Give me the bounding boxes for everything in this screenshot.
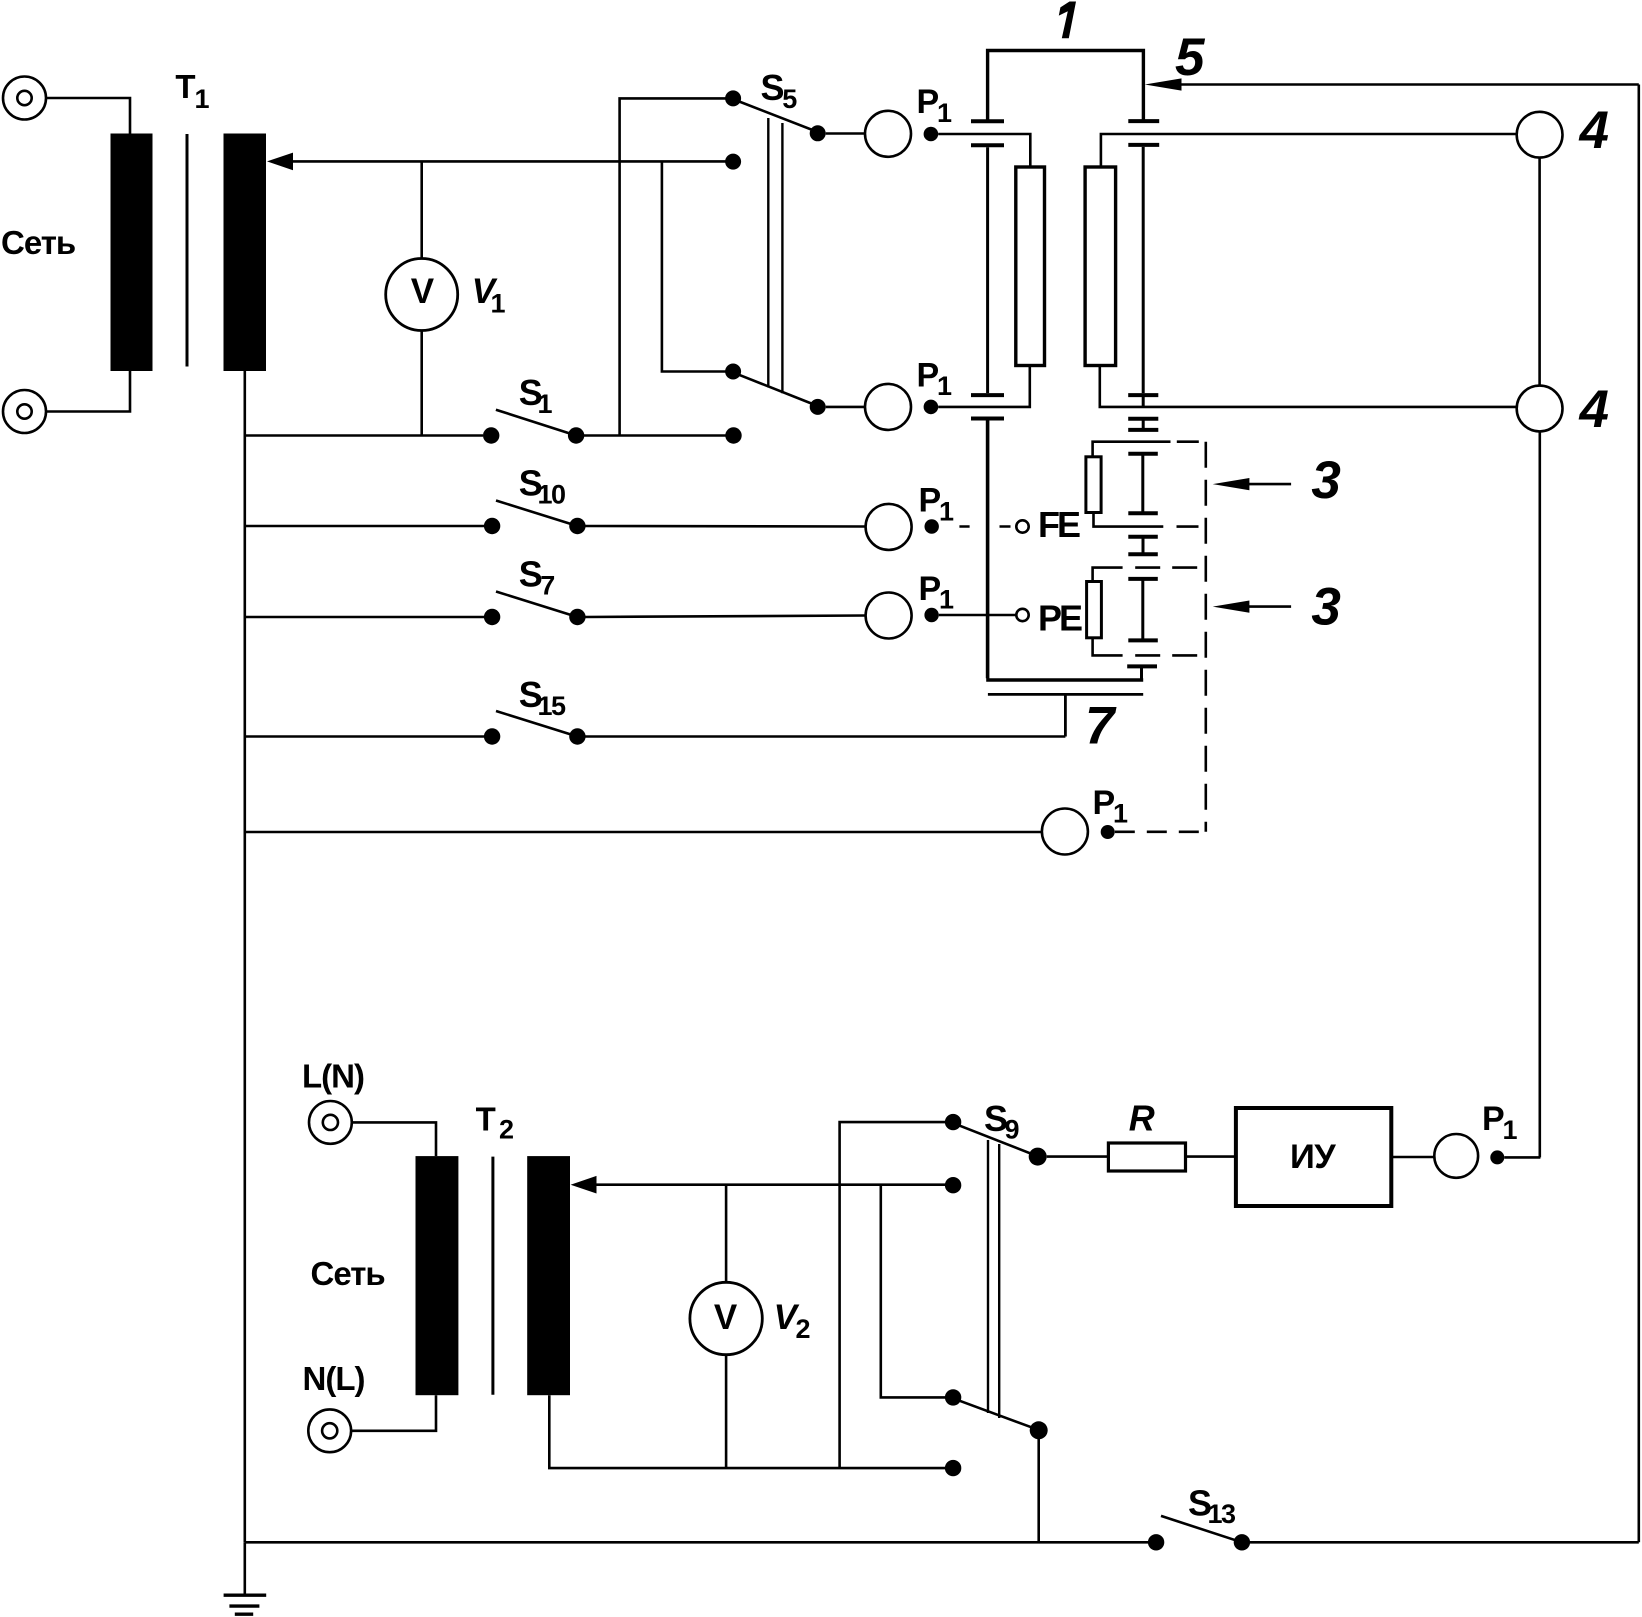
label V1 <box>472 272 506 318</box>
wire (S9 lower pole down to rail) <box>1037 1439 1040 1542</box>
capacitor (right column top pair) <box>1128 121 1159 145</box>
probe P1 (row 4, PE) <box>866 593 939 639</box>
wire (arrow 3 lower) <box>1213 601 1291 613</box>
wire (regulator arrow into T1) <box>267 153 733 171</box>
wire (row C dashed end) <box>1135 566 1206 569</box>
terminal (mains bottom) <box>3 390 46 433</box>
wire (row 2 left, to resistor) <box>938 366 1030 407</box>
ground <box>224 1542 267 1614</box>
wire (stem) <box>1142 538 1145 553</box>
switch S10 <box>245 501 866 535</box>
svg-text:Сеть: Сеть <box>1 224 75 261</box>
transformer T2 <box>416 1156 571 1395</box>
switch S5 <box>725 90 826 415</box>
svg-text:2: 2 <box>796 1314 811 1344</box>
svg-text:4: 4 <box>1579 101 1609 160</box>
wire <box>352 1122 436 1156</box>
svg-text:R: R <box>1129 1098 1155 1139</box>
capacitor (chain C) <box>1128 430 1158 454</box>
svg-text:V: V <box>411 272 435 311</box>
svg-text:1: 1 <box>937 371 952 401</box>
label S10 <box>519 462 565 509</box>
wire (IU to P1) <box>1391 1156 1434 1159</box>
svg-text:3: 3 <box>1311 577 1340 636</box>
wire <box>351 1395 436 1431</box>
wire (row 2 right, to terminal 4) <box>1100 366 1517 407</box>
wire (stem plate to row2) <box>1142 396 1145 407</box>
svg-text:4: 4 <box>1579 380 1609 439</box>
wire (node 7 line) <box>988 694 1143 736</box>
wire (dashed to enclosure box) <box>1115 830 1206 833</box>
svg-text:S: S <box>761 67 785 108</box>
svg-text:2: 2 <box>499 1115 514 1145</box>
voltmeter V2 <box>690 1185 762 1468</box>
wire (bottom rail) <box>245 1541 1148 1544</box>
svg-text:N(L): N(L) <box>303 1360 365 1397</box>
wire (S5 upper feeder) <box>620 98 734 435</box>
svg-text:P: P <box>919 570 942 608</box>
probe P1 (row 2) <box>826 384 939 430</box>
label P1 (row 5) <box>1093 784 1129 829</box>
label 1 <box>1059 2 1076 39</box>
wire (stem below row2 plate) <box>1142 420 1145 429</box>
resistor (PE) <box>1087 582 1102 638</box>
svg-text:1: 1 <box>491 288 506 318</box>
resistor R <box>1108 1143 1185 1171</box>
terminal N(L) <box>308 1409 351 1452</box>
wire (bus from T1 secondary) <box>244 371 247 1542</box>
svg-text:15: 15 <box>538 691 567 721</box>
label S13 <box>1188 1482 1236 1529</box>
enclosure bracket 1 (top) <box>988 51 1144 120</box>
capacitor (PE I-beam) <box>1128 579 1158 641</box>
svg-text:P: P <box>917 83 940 121</box>
probe P1 (row 1) <box>826 111 939 157</box>
label P1 (row 2) <box>917 357 953 402</box>
wire (S9 feeder from top rail) <box>881 1185 945 1398</box>
svg-text:13: 13 <box>1208 1499 1237 1529</box>
svg-text:P: P <box>1482 1100 1505 1138</box>
label T2 <box>476 1100 514 1144</box>
capacitor (right column pair at row 2) <box>1128 395 1158 419</box>
node PE terminal <box>1016 609 1028 621</box>
wire (between terminals 4) <box>1538 158 1541 386</box>
node FE terminal <box>1016 520 1028 532</box>
wire (terminal 4 down to P1) <box>1539 431 1542 1157</box>
svg-text:10: 10 <box>538 479 566 509</box>
svg-text:1: 1 <box>195 84 210 114</box>
wire (right border) <box>1638 85 1641 1543</box>
svg-text:S: S <box>519 554 543 595</box>
switch S7 <box>245 592 866 626</box>
probe P1 (row 5) <box>245 809 1115 855</box>
probe P1 (row 6) <box>1434 1134 1504 1178</box>
svg-text:1: 1 <box>937 98 952 128</box>
wire (S5 lower feeder) <box>662 161 733 371</box>
svg-text:Т: Т <box>476 1100 496 1137</box>
wire (T2 secondary bottom rail) <box>549 1395 945 1468</box>
wire (row D: PE bottom) <box>1093 638 1123 656</box>
label P1 (row 1) <box>917 83 953 128</box>
switch S9 <box>945 1114 1048 1476</box>
capacitor (left column mid pair) <box>971 395 1004 418</box>
wire (S9 to R) <box>1047 1155 1109 1158</box>
svg-text:FE: FE <box>1038 504 1080 545</box>
wire (row D dashed end) <box>1135 654 1206 657</box>
wire (row B dashed end) <box>1177 525 1206 528</box>
wire (row C: PE network top) <box>1093 568 1123 582</box>
svg-text:1: 1 <box>939 496 954 526</box>
label P1 (row 4) <box>919 570 955 615</box>
label P1 (row 6) <box>1482 1100 1518 1145</box>
enclosure dashed box (right edge, label 3) <box>1205 442 1208 832</box>
svg-text:1: 1 <box>939 585 954 615</box>
label P1 (row 3) <box>919 482 955 527</box>
terminal 4 (lower) <box>1517 386 1563 432</box>
wire <box>46 98 130 134</box>
wire (dashed link to FE) <box>959 525 1010 528</box>
wire (link to PE) <box>939 614 1017 617</box>
switch S1 <box>245 410 742 444</box>
measuring device IU (ИУ) <box>1236 1108 1391 1206</box>
wire (row A: FE network top) <box>1093 442 1171 457</box>
svg-text:PE: PE <box>1038 597 1082 638</box>
wire (regulator arrow into T2) <box>571 1176 954 1194</box>
probe P1 (row 3, FE) <box>866 504 939 550</box>
capacitor (chain E top plate) <box>1128 552 1158 556</box>
svg-text:1: 1 <box>538 389 553 419</box>
wire (row B: FE bottom) <box>1094 513 1164 527</box>
terminal (mains top) <box>3 77 46 120</box>
wire (row A dashed end) <box>1177 440 1206 443</box>
svg-text:7: 7 <box>1085 696 1117 755</box>
svg-text:Т: Т <box>175 68 195 105</box>
label T1 <box>175 68 209 114</box>
wire (row 1 left, to resistor) <box>938 134 1030 167</box>
svg-text:7: 7 <box>540 571 555 601</box>
capacitor (chain F bottom plate) <box>1127 666 1157 680</box>
svg-text:Сеть: Сеть <box>311 1255 385 1292</box>
wire (P1 up to terminal 4 chain) <box>1504 1156 1540 1159</box>
node (end of regulator wire) <box>725 154 741 170</box>
capacitor (chain D bottom plate) <box>1128 535 1158 539</box>
switch S13 <box>1148 1516 1639 1551</box>
svg-text:P: P <box>917 357 940 395</box>
label S9 <box>984 1098 1020 1145</box>
svg-text:3: 3 <box>1311 451 1340 510</box>
svg-text:P: P <box>1093 784 1116 822</box>
terminal 4 (upper) <box>1517 112 1563 158</box>
wire (S9 feeder from bottom rail) <box>840 1122 945 1468</box>
wire (arrow 3 upper) <box>1213 478 1291 490</box>
wire (left column lower stem + EUT bottom) <box>986 421 1143 681</box>
label V2 <box>774 1298 811 1344</box>
capacitor (left column top pair) <box>971 121 1004 145</box>
label S15 <box>519 674 566 721</box>
svg-text:5: 5 <box>782 84 797 114</box>
wire (right column stem) <box>1142 147 1145 393</box>
svg-text:ИУ: ИУ <box>1290 1138 1336 1176</box>
svg-text:9: 9 <box>1005 1115 1020 1145</box>
svg-text:L(N): L(N) <box>302 1058 364 1095</box>
wire (R to IU) <box>1186 1155 1236 1158</box>
svg-text:V: V <box>714 1298 738 1337</box>
terminal L(N) <box>309 1101 352 1144</box>
wire (row 1 right, to terminal 4) <box>1101 134 1517 167</box>
svg-text:1: 1 <box>1113 799 1128 829</box>
capacitor (FE I-beam) <box>1128 455 1158 513</box>
label S5 <box>761 67 798 114</box>
resistor (EUT left) <box>1016 167 1045 366</box>
transformer T1 <box>111 134 267 372</box>
svg-text:5: 5 <box>1175 28 1206 87</box>
label S1 <box>519 372 553 419</box>
label S7 <box>519 554 556 601</box>
svg-text:P: P <box>919 482 942 520</box>
resistor (FE) <box>1086 457 1101 513</box>
voltmeter V1 <box>386 161 458 435</box>
switch S15 <box>245 711 1066 745</box>
resistor (EUT right) <box>1085 167 1116 366</box>
wire (left column stem) <box>986 147 989 393</box>
svg-text:1: 1 <box>1503 1115 1518 1145</box>
wire (arrow 5 into bracket) <box>1145 78 1639 90</box>
wire <box>46 371 130 412</box>
